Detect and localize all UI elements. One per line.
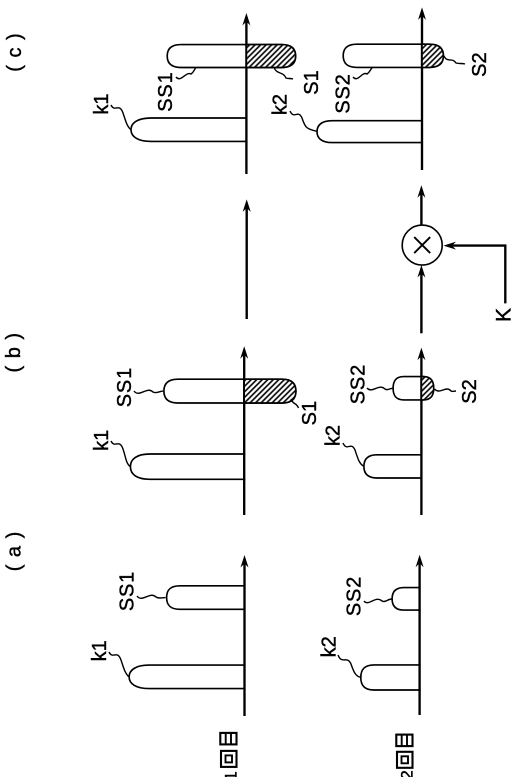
pulse k1 (a) [129,665,245,689]
leader SS1 (b) [134,390,163,393]
wire axis a2 [418,562,420,715]
hatched S2 (b) [421,377,433,400]
svg-text:k1: k1 [91,94,113,115]
leader k2 (a) [338,655,360,677]
leader S2 (c) [444,56,465,64]
hatched S1 (c) [246,45,295,68]
pulse k2 (a) [361,665,421,690]
leader SS1 (c) [176,68,196,79]
pulse k2 (c) [317,121,423,143]
svg-text:SS2: SS2 [344,576,366,616]
leader k1 (b) [111,441,130,466]
wire axis b1 [243,353,245,515]
wire multiplier output [420,192,422,225]
svg-text:K: K [493,308,511,322]
node 2回目 row2 label [396,735,416,777]
capsule SS1/S1 (b) [164,379,296,403]
wire axis b2 [420,355,422,516]
svg-text:S1: S1 [299,401,321,425]
svg-text:S2: S2 [469,52,491,76]
svg-text:SS1: SS1 [117,571,139,611]
leader k1 (c) [111,105,130,129]
leader k1 (a) [109,652,129,677]
wire multiplier input [420,272,422,334]
pulse SS1 (a) [167,586,246,610]
leader SS2 (a) [364,599,392,603]
svg-text:SS1: SS1 [155,71,177,111]
svg-text:k2: k2 [323,425,345,446]
pulse SS2 (a) [392,588,421,611]
svg-text:SS2: SS2 [333,73,355,113]
svg-text:( a ): ( a ) [4,531,26,572]
multiplier circle [402,225,442,265]
node 1回目 row1 label [220,733,240,777]
leader S1 (b) [291,399,299,408]
pulse k1 (c) [131,118,247,141]
svg-text:2: 2 [398,770,417,777]
svg-text:SS2: SS2 [348,364,370,404]
capsule SS2/S2 (c) [343,44,443,67]
svg-text:k1: k1 [89,640,111,661]
pulse k2 (b) [364,455,423,478]
svg-text:( b ): ( b ) [3,332,25,373]
leader SS1 (a) [137,595,166,598]
svg-text:k1: k1 [91,430,113,451]
svg-text:k2: k2 [270,94,292,115]
svg-text:SS1: SS1 [114,367,136,407]
leader SS2 (b) [367,387,393,390]
wire axis c1 [245,20,247,174]
hatched S1 (b) [244,379,296,403]
leader S2 (b) [435,389,457,391]
leader SS2 (c) [353,67,372,78]
capsule SS2/S2 (b) [393,377,434,400]
wire axis c2 [421,14,423,170]
svg-text:S2: S2 [459,379,481,403]
svg-text:S1: S1 [301,70,323,94]
svg-text:k2: k2 [319,636,341,657]
wire axis a1 [243,562,245,716]
wire K input [450,246,506,304]
leader S1 (c) [274,68,293,80]
leader k2 (c) [290,111,317,131]
pulse k1 (b) [130,454,245,479]
hatched S2 (c) [422,44,443,67]
capsule SS1/S1 (c) [167,45,295,68]
svg-text:1: 1 [222,771,241,777]
svg-text:( c ): ( c ) [4,32,26,71]
wire mid arrow row1 [245,206,247,319]
leader k2 (b) [343,443,363,466]
